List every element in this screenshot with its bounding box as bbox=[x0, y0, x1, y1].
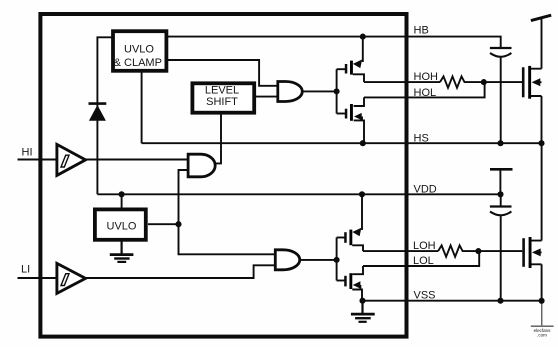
svg-text:SHIFT: SHIFT bbox=[206, 96, 238, 108]
buffer U2 (LI schmitt) bbox=[57, 263, 86, 293]
wire VDD to diode anode vertical, up to UVLO & CLAMP bbox=[97, 37, 111, 194]
AND gate A3 bbox=[275, 250, 299, 270]
node VSS cap bbox=[497, 298, 503, 304]
label VDD bbox=[414, 184, 437, 196]
svg-text:HB: HB bbox=[414, 25, 429, 37]
label LOH bbox=[413, 240, 436, 252]
ground external far right with watermark bbox=[531, 301, 554, 338]
svg-text:UVLO: UVLO bbox=[107, 220, 137, 232]
ground under UVLO bbox=[110, 241, 134, 262]
capacitor C2 VDD bypass bbox=[490, 194, 512, 300]
wire LI buffer output to AND A3 bottom input bbox=[85, 265, 275, 278]
wire AND A2 output to gate bus bbox=[303, 90, 337, 92]
AND gate A2 bbox=[278, 82, 303, 102]
wire LOL net bbox=[363, 251, 479, 266]
label VSS bbox=[414, 290, 436, 302]
node LOH/LOL bbox=[475, 248, 481, 254]
block UVLO bbox=[95, 209, 146, 239]
node HS cap bbox=[497, 140, 503, 146]
wire VSS rail bbox=[362, 300, 542, 302]
wire HI input bbox=[18, 159, 57, 161]
ground VSS internal bbox=[351, 301, 375, 322]
resistor R1 bbox=[440, 76, 484, 87]
label LI bbox=[21, 264, 30, 276]
svg-text:HOH: HOH bbox=[414, 71, 439, 83]
transistor Q1 internal high-side PMOS bbox=[337, 37, 364, 83]
wire UVLO output to enable bus bbox=[148, 223, 179, 225]
label HI bbox=[22, 147, 33, 159]
diode D1 bootstrap bbox=[89, 104, 107, 121]
svg-text:VDD: VDD bbox=[414, 184, 437, 196]
node HOH/HOL bbox=[481, 79, 487, 85]
svg-text:HOL: HOL bbox=[414, 87, 437, 99]
AND gate A1 bbox=[188, 154, 215, 177]
gate bus high side bbox=[336, 69, 338, 113]
label HOH bbox=[414, 71, 439, 83]
transistor Q4 internal low-side NMOS bbox=[337, 266, 363, 301]
capacitor C1 bootstrap bbox=[490, 48, 512, 143]
wire LEVEL SHIFT bottom input from AND A1 output bbox=[214, 114, 221, 164]
node VDD UVLO tap bbox=[119, 191, 125, 197]
transistor Q6 external low-side MOSFET bbox=[522, 143, 541, 301]
wire UVLO&CLAMP to HB net bbox=[167, 37, 501, 47]
label LOL bbox=[413, 255, 434, 267]
node HS external FET bbox=[538, 140, 544, 146]
node VSS source bbox=[359, 298, 365, 304]
transistor Q3 internal low-side PMOS bbox=[337, 194, 363, 251]
transistor Q2 internal high-side NMOS bbox=[337, 97, 364, 143]
wire LI input bbox=[18, 277, 57, 279]
wire HS rail bbox=[142, 142, 542, 144]
node VDD drain bbox=[359, 191, 365, 197]
wire UVLO&CLAMP bottom to HS rail bbox=[141, 71, 143, 143]
wire UVLO&CLAMP enable to AND A2 top input bbox=[167, 60, 280, 86]
label HB bbox=[414, 25, 429, 37]
resistor R2 bbox=[438, 245, 478, 256]
power rail VDD T symbol bbox=[490, 169, 513, 194]
node HS source bbox=[360, 140, 366, 146]
svg-text:HI: HI bbox=[22, 147, 33, 159]
wire LEVEL SHIFT output to AND A2 bottom input bbox=[254, 96, 280, 98]
transistor Q5 external high-side MOSFET bbox=[522, 18, 542, 143]
wire R2 junction to external FET gate bbox=[478, 250, 522, 252]
wire LOH net bbox=[363, 250, 438, 252]
svg-text:VSS: VSS bbox=[414, 290, 436, 302]
wire VDD rail bbox=[97, 193, 500, 195]
wire enable bus: AND A1 bottom input down to AND A3 top input bbox=[179, 170, 277, 254]
wire AND A3 output to gate bus bbox=[300, 259, 337, 261]
svg-text:HS: HS bbox=[414, 133, 429, 145]
buffer U1 (HI schmitt) bbox=[57, 144, 86, 175]
node gate bus high bbox=[334, 88, 340, 94]
wire UVLO top tap to VDD rail bbox=[121, 194, 123, 209]
node HB/drain bbox=[360, 34, 366, 40]
node enable bus bbox=[175, 221, 181, 227]
gate bus low side bbox=[336, 238, 338, 281]
node VDD cap bbox=[497, 191, 503, 197]
svg-text:.com: .com bbox=[537, 333, 547, 338]
IC boundary box bbox=[40, 14, 406, 337]
svg-text:LEVEL: LEVEL bbox=[205, 85, 239, 97]
label HOL bbox=[414, 87, 437, 99]
wire HI buffer output to AND A1 bbox=[85, 159, 188, 161]
wire R1 junction to external FET gate bbox=[484, 81, 522, 83]
svg-text:UVLO: UVLO bbox=[124, 43, 154, 55]
node VSS external FET bbox=[539, 298, 545, 304]
block UVLO & CLAMP bbox=[113, 31, 166, 71]
wire HOL net bbox=[364, 82, 485, 97]
power rail HV tilted bar bbox=[531, 15, 551, 20]
node gate bus low bbox=[334, 257, 340, 263]
svg-text:& CLAMP: & CLAMP bbox=[114, 57, 162, 69]
label HS bbox=[414, 133, 429, 145]
wire HOH net bbox=[364, 81, 440, 83]
svg-text:LI: LI bbox=[21, 264, 30, 276]
block LEVEL SHIFT bbox=[192, 83, 254, 112]
